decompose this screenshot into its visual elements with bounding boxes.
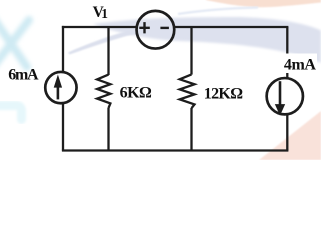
voltage source plus sign bbox=[139, 22, 150, 33]
svg-text:1: 1 bbox=[101, 6, 108, 21]
watermark lavender swoosh thin tail arc bbox=[68, 27, 144, 55]
wire bottom rail bbox=[62, 149, 289, 151]
current source 6mA arrow (up) bbox=[57, 86, 60, 99]
current source 4mA circle bbox=[267, 78, 303, 114]
watermark faint blue wisp under salmon band bbox=[178, 8, 258, 15]
label 4mA background box (covers wire) bbox=[282, 54, 318, 74]
svg-text:6mA: 6mA bbox=[8, 67, 39, 84]
current source 4mA arrow (down) bbox=[279, 81, 282, 105]
wire top-right segment bbox=[174, 26, 288, 28]
resistor R2 12KOhm zigzag bbox=[180, 74, 195, 108]
watermark pink triangle bottom-right bbox=[259, 111, 321, 160]
wire top rail left segment (node V1) bbox=[62, 26, 137, 28]
svg-text:6KΩ: 6KΩ bbox=[120, 85, 152, 102]
svg-text:12KΩ: 12KΩ bbox=[204, 85, 243, 102]
wire left branch upper bbox=[62, 26, 64, 72]
resistor R1 6KOhm zigzag bbox=[97, 75, 110, 108]
watermark lavender swoosh main band bbox=[93, 17, 321, 63]
current source 6mA circle bbox=[45, 72, 76, 103]
wire right branch upper bbox=[286, 27, 288, 78]
watermark cyan curl left bbox=[0, 106, 22, 120]
wire 12K branch lower bbox=[190, 108, 192, 151]
watermark salmon band top-right bbox=[206, 0, 321, 7]
wire 6K branch lower bbox=[107, 108, 109, 151]
watermark blue X logo top-left bbox=[0, 16, 29, 71]
wire right branch lower bbox=[286, 115, 288, 151]
voltage source V1 circle bbox=[137, 11, 175, 49]
svg-text:4mA: 4mA bbox=[284, 57, 316, 74]
wire left branch lower bbox=[62, 104, 64, 151]
wire 12K branch upper bbox=[190, 27, 192, 75]
voltage source minus sign bbox=[160, 27, 169, 29]
wire 6K branch upper bbox=[107, 27, 109, 75]
